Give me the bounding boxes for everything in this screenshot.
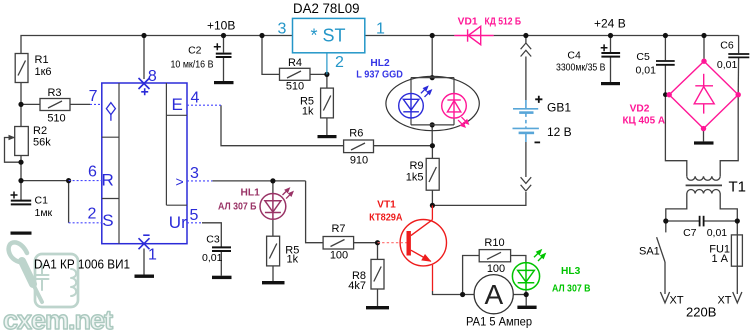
svg-text:2: 2 — [335, 54, 344, 71]
svg-text:100: 100 — [487, 263, 505, 275]
svg-text:А: А — [485, 279, 504, 310]
svg-text:510: 510 — [286, 80, 304, 92]
capacitor C5 — [656, 61, 675, 65]
IC inner partitions — [102, 83, 187, 244]
svg-text:100: 100 — [330, 250, 348, 262]
wire pin8 — [143, 36, 145, 80]
svg-text:0,01: 0,01 — [707, 227, 728, 239]
wire R9 bottom to node D — [431, 190, 433, 205]
svg-text:+10В: +10В — [207, 19, 235, 33]
svg-text:8: 8 — [148, 68, 157, 85]
wire C6 — [738, 36, 740, 54]
wire R6 to node C — [374, 145, 433, 147]
svg-text:C2: C2 — [188, 45, 202, 57]
svg-text:L 937 GGD: L 937 GGD — [356, 70, 403, 81]
svg-text:C3: C3 — [206, 234, 220, 246]
svg-text:R6: R6 — [349, 127, 363, 139]
svg-text:T1: T1 — [729, 179, 747, 196]
wire pin4 stub — [187, 104, 221, 106]
HL2 blue emission arrows — [421, 87, 431, 97]
wire node G to ground — [525, 295, 527, 306]
wire +24V rail right (left of VD1) — [365, 35, 455, 37]
battery GB1 cells — [513, 100, 539, 142]
wire T1 primary right — [720, 194, 737, 222]
wire HL3 bottom — [525, 290, 527, 295]
HL2 magenta emission arrows — [458, 117, 468, 127]
wire pin4 corner to R6 — [221, 105, 344, 146]
svg-text:Ur: Ur — [169, 213, 187, 232]
svg-text:C4: C4 — [567, 49, 581, 61]
wire pin5 row — [202, 223, 221, 247]
op-amp U1: timer IC DA1 KR1006VI1 body — [102, 83, 187, 244]
wire C2 — [223, 36, 225, 53]
svg-text:>: > — [176, 174, 184, 190]
blue dashed pin wires — [69, 104, 221, 222]
svg-text:SA1: SA1 — [639, 246, 660, 258]
HL3 emission arrows — [534, 250, 545, 261]
wire pin3 row — [212, 180, 305, 182]
IC comparator diamond symbol — [106, 103, 115, 121]
watermark cxem.net logo — [3, 242, 113, 332]
svg-text:VD1: VD1 — [458, 16, 478, 27]
wire C3 to ground — [220, 251, 222, 276]
HL2 internal bus wires — [411, 78, 454, 125]
wire node A to R2 — [20, 104, 22, 126]
wire R7 to node E — [354, 242, 378, 244]
wire SA1 bottom — [664, 262, 666, 294]
svg-text:* ST: * ST — [310, 26, 345, 46]
wire node A to R3 — [21, 103, 40, 105]
svg-text:0,01: 0,01 — [636, 64, 657, 76]
wire bridge bottom to ground — [703, 131, 705, 141]
svg-text:2: 2 — [88, 206, 97, 223]
resistor R6 — [344, 140, 374, 153]
svg-text:C6: C6 — [720, 39, 734, 51]
svg-text:56k: 56k — [33, 136, 51, 148]
HL1 emission arrows — [283, 188, 293, 198]
resistor R2 trimmer — [15, 127, 29, 156]
wire C7 row — [666, 220, 700, 222]
svg-text:КД 512 Б: КД 512 Б — [485, 17, 522, 28]
resistor R5 (lower) — [267, 236, 280, 266]
wire R8 to ground — [377, 289, 379, 306]
ground (pin1 DA1) — [135, 275, 155, 278]
voltage regulator DA2 78L09 box — [293, 18, 365, 52]
svg-text:3300мк/35 В: 3300мк/35 В — [556, 62, 606, 74]
wire node D to GB1 bottom — [432, 192, 526, 205]
connector arrow XT right — [733, 292, 742, 303]
wire R2 wiper — [5, 138, 22, 163]
wire PA1 right to node G — [513, 294, 526, 296]
svg-text:+24 В: +24 В — [594, 17, 626, 31]
wire node 6-2 vertical — [68, 181, 70, 223]
wire pin3 down to R7 — [306, 181, 324, 243]
svg-text:cxem.net: cxem.net — [3, 305, 113, 332]
wire pin3 stub — [187, 180, 212, 182]
svg-text:VD2: VD2 — [630, 104, 650, 115]
transformer T1 secondary winding — [687, 176, 720, 180]
svg-text:C7: C7 — [683, 227, 697, 239]
wire T1 primary left — [666, 194, 687, 222]
svg-text:R4: R4 — [288, 57, 302, 69]
wire R2 bottom — [20, 156, 22, 181]
svg-text:АЛ 307 Б: АЛ 307 Б — [218, 202, 257, 213]
svg-text:1k: 1k — [302, 106, 314, 118]
svg-text:6: 6 — [88, 164, 97, 181]
wire T1 secondary right — [720, 95, 738, 177]
wire DA2 pin2 — [326, 53, 328, 75]
resistor R5 (upper) — [321, 88, 334, 118]
svg-text:0,01: 0,01 — [717, 59, 738, 71]
wire pin1 to ground — [143, 249, 145, 275]
svg-text:VT1: VT1 — [377, 199, 396, 210]
ground (C3) — [212, 276, 232, 279]
svg-text:4: 4 — [191, 90, 200, 107]
svg-text:C1: C1 — [35, 194, 49, 206]
wire pin2 stub — [69, 222, 102, 224]
wire R1 bottom to node A — [20, 83, 22, 105]
svg-text:220В: 220В — [686, 305, 716, 320]
wire GB1 top — [525, 36, 527, 44]
wire pin5 stub — [187, 222, 202, 224]
resistor R9 — [426, 158, 439, 190]
wire pin7 stub — [90, 103, 102, 105]
svg-text:910: 910 — [350, 155, 368, 167]
LED HL1 — [260, 194, 286, 220]
fuse FU1 — [731, 235, 742, 266]
wire C4 — [610, 36, 612, 53]
svg-text:1k: 1k — [287, 254, 299, 266]
wire FU1 branch — [736, 221, 738, 294]
svg-text:4k7: 4k7 — [348, 280, 366, 292]
capacitor C1 — [11, 201, 31, 205]
svg-text:R2: R2 — [33, 125, 47, 137]
wire VT1 base dashed — [378, 242, 407, 244]
wire GB1 lower — [525, 142, 527, 177]
svg-text:АЛ 307 В: АЛ 307 В — [552, 284, 591, 295]
svg-text:5: 5 — [190, 207, 199, 224]
wire HL2 top — [431, 36, 433, 78]
wire HL2 bottom to node C — [431, 125, 433, 146]
capacitor C3 — [212, 247, 231, 251]
transformer T1 primary winding — [687, 190, 720, 194]
capacitor C2 — [216, 54, 232, 57]
capacitor C4 — [601, 53, 620, 57]
ground (VD2 bridge) — [694, 141, 714, 144]
svg-text:HL3: HL3 — [561, 266, 581, 277]
wire bridge top — [703, 36, 705, 59]
svg-text:7: 7 — [89, 88, 98, 105]
svg-text:R1: R1 — [35, 54, 49, 66]
ground (C1) — [11, 232, 32, 235]
svg-text:КЦ 405 А: КЦ 405 А — [623, 115, 666, 126]
resistor R3 — [40, 99, 70, 111]
connector arrow XT left — [660, 292, 669, 303]
transformer T1 core — [686, 184, 722, 186]
wire C5 — [664, 36, 666, 61]
LED HL3 — [512, 263, 539, 290]
wire node C to R9 — [431, 146, 433, 159]
svg-text:R3: R3 — [47, 87, 61, 99]
svg-text:1k5: 1k5 — [406, 171, 424, 183]
svg-text:1: 1 — [148, 247, 157, 264]
svg-text:DA1 КР 1006 ВИ1: DA1 КР 1006 ВИ1 — [34, 257, 130, 271]
capacitor C7 — [700, 216, 704, 227]
svg-text:DA2 78L09: DA2 78L09 — [293, 1, 360, 16]
pin 1 X mark and minus — [139, 235, 150, 249]
svg-text:3: 3 — [278, 21, 287, 38]
svg-text:10 мк/16 В: 10 мк/16 В — [171, 59, 214, 71]
svg-text:XT: XT — [717, 294, 731, 306]
wire node B to C1 — [20, 181, 22, 200]
wire node F up to R10 — [463, 256, 480, 295]
svg-text:R7: R7 — [331, 223, 345, 235]
wire emitter row to PA1 — [433, 291, 475, 295]
wire +10V rail left — [21, 36, 293, 54]
wire +24V rail right (right of VD1) — [494, 35, 739, 37]
svg-text:HL2: HL2 — [370, 58, 390, 69]
wire rail to R4 — [262, 36, 280, 75]
wire node E to R8 — [377, 243, 379, 260]
wire R5 lower to ground — [272, 266, 274, 281]
svg-text:GB1: GB1 — [547, 100, 571, 114]
svg-text:E: E — [172, 95, 183, 114]
svg-text:HL1: HL1 — [241, 187, 261, 198]
pin 8 X mark and plus — [139, 78, 150, 95]
GB1 minus sign — [535, 141, 541, 143]
wire R3 to pin7 — [70, 103, 90, 105]
LED HL2 magenta element — [442, 94, 467, 119]
svg-text:1: 1 — [376, 21, 385, 38]
wire node B to pin6 — [21, 180, 69, 182]
LED assembly HL2 ellipse — [386, 76, 479, 130]
GB1 plus sign — [535, 96, 542, 103]
svg-text:1 А: 1 А — [711, 253, 728, 265]
resistor R1 — [15, 54, 28, 83]
diode VD1 — [454, 26, 493, 44]
resistor R7 — [323, 237, 354, 250]
ground (C2) — [214, 81, 234, 84]
svg-text:12 В: 12 В — [547, 125, 572, 139]
svg-text:510: 510 — [47, 112, 65, 124]
ammeter PA1 — [474, 275, 513, 314]
svg-text:3: 3 — [190, 165, 199, 182]
LED HL2 blue element — [399, 93, 424, 118]
svg-text:РА1 5 Ампер: РА1 5 Ампер — [466, 315, 532, 329]
wire HL1 top lead — [272, 181, 274, 194]
wire SA1 top contact — [665, 221, 667, 232]
svg-text:0,01: 0,01 — [202, 252, 223, 264]
svg-text:R10: R10 — [484, 237, 504, 249]
ground (HL3) — [517, 306, 536, 309]
svg-text:S: S — [102, 211, 113, 230]
ground (C4) — [601, 82, 620, 85]
resistor R8 — [371, 259, 384, 289]
wire R5 leads — [326, 74, 328, 88]
wire T1 secondary left — [665, 95, 686, 177]
rectifier bridge VD2 — [669, 61, 738, 128]
wire R10 to HL3 top — [511, 256, 526, 263]
ground (R8) — [366, 306, 389, 309]
capacitor C6 — [728, 54, 749, 57]
battery GB1 connector arrows bottom — [521, 177, 532, 191]
resistor R10 — [479, 250, 510, 262]
svg-text:XT: XT — [670, 295, 684, 307]
resistor R4 — [280, 68, 311, 80]
battery GB1 connector arrows top — [521, 43, 532, 57]
ground (R5 lower) — [262, 281, 285, 284]
svg-text:1мк: 1мк — [35, 207, 53, 219]
wire HL1 to R5 lower — [272, 219, 274, 236]
svg-text:КТ829А: КТ829А — [369, 212, 403, 223]
wire pin6 stub — [69, 180, 102, 182]
svg-text:R9: R9 — [409, 160, 423, 172]
wire R4 to node R5 — [310, 73, 327, 75]
ground (R5 upper) — [318, 135, 337, 138]
svg-text:1к6: 1к6 — [35, 66, 52, 78]
switch SA1 — [657, 237, 665, 262]
svg-text:R: R — [102, 171, 114, 190]
svg-text:C5: C5 — [636, 51, 650, 63]
transistor Q1: VT1 KT829A — [400, 205, 446, 291]
